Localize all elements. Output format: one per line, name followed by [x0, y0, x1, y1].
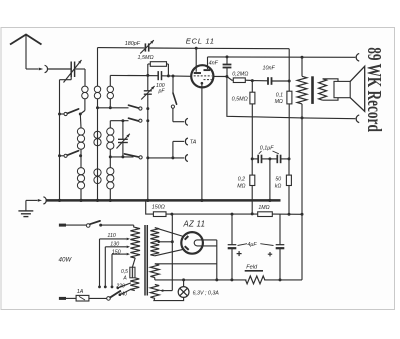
svg-text:10nF: 10nF [263, 66, 276, 72]
svg-text:1MΩ: 1MΩ [258, 205, 269, 211]
svg-text:MΩ: MΩ [237, 183, 245, 189]
svg-text:180pF: 180pF [125, 41, 141, 47]
svg-text:110: 110 [107, 233, 115, 239]
svg-text:AZ 11: AZ 11 [183, 219, 206, 228]
svg-text:pF: pF [158, 89, 166, 95]
svg-text:150: 150 [112, 250, 121, 256]
svg-text:0,2MΩ: 0,2MΩ [232, 72, 248, 78]
svg-text:40W: 40W [59, 257, 73, 264]
svg-text:0,2: 0,2 [238, 177, 245, 183]
svg-text:4μF: 4μF [247, 242, 257, 248]
svg-text:0,5MΩ: 0,5MΩ [232, 97, 248, 103]
svg-text:kΩ: kΩ [275, 183, 282, 189]
svg-text:150Ω: 150Ω [152, 205, 165, 211]
svg-text:A: A [122, 276, 127, 282]
svg-text:4nF: 4nF [209, 60, 219, 66]
svg-text:130: 130 [110, 241, 119, 247]
svg-text:Feld: Feld [246, 264, 258, 270]
svg-text:220: 220 [115, 283, 125, 289]
svg-text:89 WK Record: 89 WK Record [363, 47, 385, 132]
svg-text:MΩ: MΩ [275, 99, 283, 105]
svg-text:1,5MΩ: 1,5MΩ [138, 55, 154, 61]
svg-text:0,5: 0,5 [121, 269, 128, 275]
svg-text:0,1μF: 0,1μF [260, 146, 274, 152]
svg-text:6,3V ; 0,3A: 6,3V ; 0,3A [193, 291, 220, 297]
svg-text:ECL 11: ECL 11 [186, 36, 215, 45]
svg-text:50: 50 [275, 177, 281, 183]
svg-text:0,1: 0,1 [276, 93, 283, 99]
svg-text:TA: TA [190, 140, 197, 146]
svg-text:1A: 1A [77, 289, 84, 295]
